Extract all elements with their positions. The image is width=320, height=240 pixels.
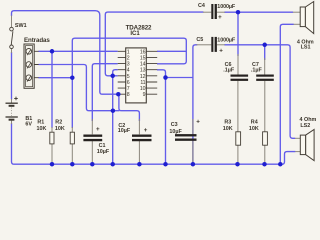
speaker LS2 xyxy=(300,129,314,160)
wire pin 16 to riser xyxy=(157,50,186,52)
battery B1 xyxy=(6,97,18,120)
svg-text:9: 9 xyxy=(143,92,146,98)
svg-text:10K: 10K xyxy=(37,126,47,132)
lead R1 bottom xyxy=(51,144,53,164)
capacitor C2 plates xyxy=(132,135,152,142)
svg-text:4: 4 xyxy=(127,68,130,74)
svg-text:10µF: 10µF xyxy=(169,129,182,135)
svg-text:6V: 6V xyxy=(25,122,32,128)
junction rail LS1 return xyxy=(278,162,283,167)
junction rail R4 xyxy=(262,162,267,167)
junction pin4/pin5 node xyxy=(110,74,115,79)
wire C4 right to LS1 top with C6 tap xyxy=(224,11,293,13)
capacitor C5 plates xyxy=(211,37,217,52)
pin numbers right 16-9 xyxy=(140,49,146,98)
svg-text:C3: C3 xyxy=(171,122,178,128)
svg-text:R1: R1 xyxy=(37,120,44,126)
svg-text:R4: R4 xyxy=(251,120,258,126)
lead C1 top xyxy=(91,119,93,134)
lead R2 top xyxy=(71,127,73,132)
wire V+ rail from SW1 top to pin 8 xyxy=(12,11,119,95)
svg-text:10K: 10K xyxy=(249,126,259,132)
wire pin 13 corner to DOT-D xyxy=(157,70,166,164)
svg-text:C1: C1 xyxy=(99,143,106,149)
wire terminal 2 to ground node under IC xyxy=(38,65,119,111)
wire SW1 bottom to battery top xyxy=(11,52,13,100)
connector J1 Entradas terminal block xyxy=(24,44,39,88)
svg-text:11: 11 xyxy=(140,80,145,86)
junction pin13 node xyxy=(163,75,168,80)
capacitor C4 plates xyxy=(211,4,217,19)
svg-text:5: 5 xyxy=(127,74,130,80)
lead battery top xyxy=(11,99,13,103)
svg-text:+: + xyxy=(96,126,100,133)
svg-text:6: 6 xyxy=(127,80,130,86)
junction ground mid node xyxy=(111,108,116,113)
lead C2 bottom xyxy=(138,141,140,164)
junction pin8 supply node xyxy=(116,92,121,97)
lead SW1 bottom xyxy=(11,49,13,53)
op-amp IC1 TDA2822 body xyxy=(118,48,158,103)
lead C4 left xyxy=(203,11,211,13)
wire battery bottom to ground rail xyxy=(12,123,296,164)
wire C6 tap down xyxy=(237,12,239,56)
resistor R1 xyxy=(50,132,54,144)
svg-text:2: 2 xyxy=(127,55,130,61)
wire pin4 riser xyxy=(113,70,118,74)
pin numbers left 1-8 xyxy=(127,49,130,98)
wire C7 tap down xyxy=(264,45,266,60)
switch SW1 xyxy=(10,27,14,48)
junction rail R1 xyxy=(50,162,55,167)
svg-text:4 Ohm: 4 Ohm xyxy=(300,117,317,123)
junction C4 output node xyxy=(236,10,241,15)
resistor R3 xyxy=(236,132,241,145)
svg-text:1000µF: 1000µF xyxy=(217,4,236,10)
svg-text:12: 12 xyxy=(140,74,146,80)
junction rail R2 xyxy=(70,162,75,167)
capacitor C1 plates xyxy=(83,135,102,142)
svg-text:.1µF: .1µF xyxy=(223,68,235,74)
svg-text:8: 8 xyxy=(127,92,130,98)
node dots xyxy=(50,10,283,167)
wire pin8 node down to C2 top xyxy=(119,94,139,121)
svg-text:+: + xyxy=(218,14,222,21)
svg-text:1: 1 xyxy=(127,49,130,55)
lead R4 bottom xyxy=(264,145,266,164)
svg-text:R3: R3 xyxy=(224,120,231,126)
lead battery bottom xyxy=(11,121,13,124)
svg-text:.1µF: .1µF xyxy=(251,68,263,74)
svg-text:7: 7 xyxy=(127,86,130,92)
lead LS1 top xyxy=(293,11,300,13)
lead C6 bottom to R3 xyxy=(237,81,239,132)
svg-text:10K: 10K xyxy=(55,126,65,132)
wire LS1 lower terminal to ground xyxy=(280,24,293,164)
capacitor C6 plates xyxy=(231,75,249,81)
svg-text:1000µF: 1000µF xyxy=(217,37,236,43)
lead R1 top xyxy=(51,127,53,132)
wire DOT-D right to C5 left column xyxy=(166,77,193,79)
lead C4 right xyxy=(217,11,225,13)
lead C1 bottom xyxy=(91,141,93,164)
junction rail R3 xyxy=(235,162,240,167)
svg-text:Entradas: Entradas xyxy=(24,37,50,44)
svg-text:LS1: LS1 xyxy=(301,45,311,51)
svg-text:+: + xyxy=(219,48,223,55)
svg-text:R2: R2 xyxy=(55,120,62,126)
wire terminal 3 to R2 column xyxy=(38,77,72,79)
junction rail pin13 xyxy=(163,162,168,167)
svg-text:10µF: 10µF xyxy=(118,128,131,134)
svg-text:SW1: SW1 xyxy=(15,23,27,29)
junction rail C1 xyxy=(90,162,95,167)
svg-text:IC1: IC1 xyxy=(130,31,140,37)
lead C3 bottom xyxy=(192,141,194,164)
wire R2 / terminal3 to pin16 U-turn xyxy=(72,38,186,128)
lead C5 left xyxy=(197,44,212,46)
lead C7 bottom to R4 xyxy=(264,81,266,132)
svg-text:16: 16 xyxy=(140,49,146,55)
wire DOT-C column pins4/5 down to ground rail xyxy=(112,76,114,164)
wire C5 left lead down to C3 top xyxy=(193,45,197,164)
wire C5 right to LS2 feed xyxy=(224,45,295,139)
lead LS1 bottom xyxy=(294,23,301,25)
wire terminal 1 to IC pin 1 xyxy=(38,50,117,52)
lead R3 bottom xyxy=(237,145,239,164)
junction input1/R1 node xyxy=(50,49,55,54)
junction rail mid xyxy=(110,162,115,167)
resistor R2 xyxy=(70,132,74,144)
lead LS2 top xyxy=(295,137,300,139)
svg-text:C4: C4 xyxy=(198,3,205,9)
wire C1 riser to pin 3 xyxy=(92,64,117,121)
junction rail C2 xyxy=(137,162,142,167)
resistor R4 xyxy=(263,132,268,145)
svg-text:13: 13 xyxy=(140,68,146,74)
lead SW1 top xyxy=(11,16,13,28)
wire R1 top to input node xyxy=(51,51,53,128)
lead C3 top xyxy=(192,119,194,134)
svg-text:C5: C5 xyxy=(196,37,203,43)
svg-text:10: 10 xyxy=(140,86,146,92)
speaker LS1 xyxy=(300,2,314,34)
junction C5 output node xyxy=(262,43,267,48)
lead LS2 bottom xyxy=(295,151,300,153)
lead R2 bottom xyxy=(71,144,73,164)
lead C7 top xyxy=(264,58,266,75)
svg-text:10µF: 10µF xyxy=(97,149,110,155)
svg-text:+: + xyxy=(144,127,148,134)
wire pin5 stub link xyxy=(113,75,118,77)
svg-text:14: 14 xyxy=(140,62,146,68)
svg-text:+: + xyxy=(196,118,200,125)
svg-text:LS2: LS2 xyxy=(300,123,310,129)
svg-text:15: 15 xyxy=(140,55,146,61)
lead C5 right xyxy=(217,44,225,46)
svg-text:10K: 10K xyxy=(223,126,233,132)
svg-text:3: 3 xyxy=(127,62,130,68)
lead C6 top xyxy=(237,54,239,75)
lead C2 top xyxy=(138,119,140,134)
capacitor C3 plates xyxy=(175,134,197,141)
junction rail C3 xyxy=(191,162,196,167)
capacitor C7 plates xyxy=(256,75,274,81)
wire C4 feed: DOT-E left up to top rail2 to C4 left plate xyxy=(105,12,203,76)
junction input3/R2 node xyxy=(70,75,75,80)
